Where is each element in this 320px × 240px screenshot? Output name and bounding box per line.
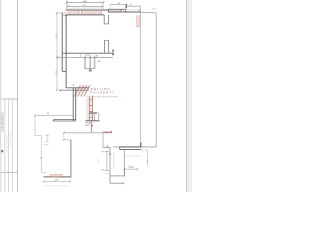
svg-text:SCALE 1:100: SCALE 1:100 [9, 131, 12, 146]
svg-text:FLOOR LAYOUT: FLOOR LAYOUT [5, 134, 8, 152]
svg-text:PROPERTY: PROPERTY [90, 91, 115, 95]
svg-text:CAD DRAWING: CAD DRAWING [1, 112, 5, 132]
